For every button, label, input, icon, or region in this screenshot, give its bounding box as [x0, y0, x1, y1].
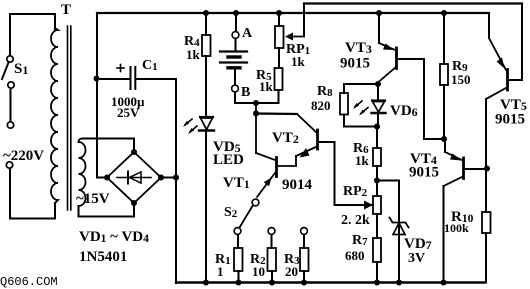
svg-text:1N5401: 1N5401: [79, 249, 127, 265]
svg-text:B: B: [241, 85, 250, 100]
svg-text:C1: C1: [142, 58, 158, 73]
svg-text:9014: 9014: [282, 177, 313, 193]
svg-text:1k: 1k: [291, 54, 306, 69]
svg-text:1k: 1k: [259, 79, 274, 94]
svg-text:20: 20: [285, 264, 298, 279]
svg-text:R7: R7: [352, 233, 368, 248]
svg-text:2. 2k: 2. 2k: [341, 213, 370, 228]
svg-text:RP2: RP2: [343, 184, 368, 199]
svg-text:9015: 9015: [495, 112, 525, 128]
svg-text:VD1 ~ VD4: VD1 ~ VD4: [79, 229, 149, 245]
svg-text:S1: S1: [14, 61, 28, 77]
svg-text:VD6: VD6: [390, 103, 418, 119]
svg-text:~15V: ~15V: [76, 191, 110, 207]
svg-text:100k: 100k: [444, 221, 469, 235]
svg-text:A: A: [242, 26, 253, 41]
svg-text:680: 680: [345, 248, 365, 263]
svg-text:~220V: ~220V: [3, 148, 44, 164]
svg-text:1: 1: [217, 264, 224, 279]
svg-text:150: 150: [451, 72, 471, 87]
svg-text:R8: R8: [317, 84, 333, 99]
svg-text:9015: 9015: [409, 165, 439, 181]
svg-text:1k: 1k: [355, 153, 370, 168]
svg-text:S2: S2: [224, 205, 238, 220]
svg-text:25V: 25V: [117, 105, 140, 120]
svg-text:T: T: [61, 2, 71, 18]
svg-text:VT2: VT2: [272, 130, 299, 146]
svg-text:9015: 9015: [340, 56, 370, 72]
svg-text:1k: 1k: [186, 47, 201, 62]
svg-text:VD7: VD7: [404, 236, 432, 252]
svg-text:LED: LED: [213, 152, 244, 168]
svg-text:820: 820: [311, 98, 331, 113]
svg-text:Q606.COM: Q606.COM: [0, 275, 58, 289]
svg-text:VT3: VT3: [345, 40, 372, 56]
svg-text:3V: 3V: [408, 251, 425, 266]
svg-text:10: 10: [252, 264, 265, 279]
